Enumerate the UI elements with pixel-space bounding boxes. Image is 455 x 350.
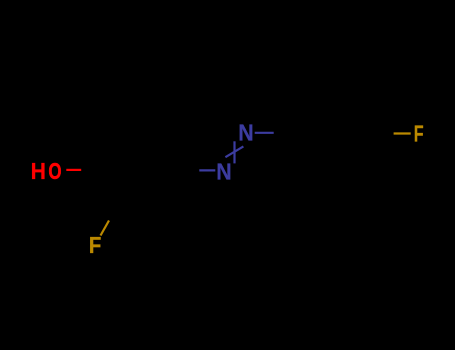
svg-text:N: N	[216, 158, 231, 184]
svg-text:H: H	[31, 158, 46, 184]
svg-text:F: F	[414, 121, 424, 147]
bond O-C1 (red half)	[66, 169, 81, 171]
bond F-C3 (gold half)	[101, 221, 110, 236]
bond N-C1' (blue half, horizontal)	[255, 132, 274, 134]
N=N crossed double bond line 2 (diagonal)	[225, 146, 243, 157]
svg-text:N: N	[238, 119, 253, 145]
bond C4-N (blue half, horizontal)	[199, 169, 215, 171]
svg-text:F: F	[89, 232, 102, 258]
N=N crossed double bond line 1 (vertical)	[233, 141, 235, 163]
svg-text:O: O	[48, 158, 61, 184]
bond C4'-F (gold half, horizontal)	[394, 132, 411, 134]
